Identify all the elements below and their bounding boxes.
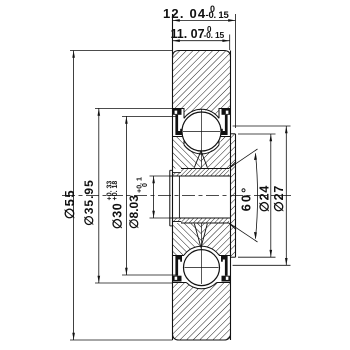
dimension d8.03 line: [152, 176, 155, 218]
extension line 12.04 right: [235, 14, 237, 128]
hub boss right face: [235, 134, 237, 257]
angle 60 arc: [256, 154, 258, 239]
bore top edge: [170, 175, 231, 177]
extension line d35.95 bottom: [95, 282, 173, 284]
svg-text:+0. 18: +0. 18: [112, 181, 119, 201]
hub boss hatch: [231, 134, 236, 257]
outer ring top outline: [173, 51, 231, 58]
inner ring bottom hatch left: [172, 223, 202, 256]
svg-text:12. 04: 12. 04: [163, 6, 206, 21]
ball top: [182, 112, 221, 151]
hub boss bottom face: [231, 256, 236, 258]
body left face: [172, 14, 174, 340]
seal bottom right: [221, 256, 230, 282]
cone apex lines bottom: [194, 224, 207, 248]
taper band top edge: [181, 168, 229, 170]
extension line d30 bottom: [122, 274, 178, 276]
dimension 12.04 line: [173, 19, 236, 22]
taper band top step edge: [173, 172, 181, 174]
svg-text:-0. 15: -0. 15: [206, 10, 230, 21]
inner ring shoulder top: [173, 137, 231, 145]
outer ring top section hatch: [172, 50, 231, 119]
left boss face: [169, 170, 171, 226]
dimension d35.95 line: [98, 108, 101, 283]
dimension d55 line: [72, 51, 75, 341]
cone apex lines top: [194, 151, 207, 168]
inner ring top hatch left: [172, 136, 202, 169]
dimension 11.07 text: [171, 25, 225, 41]
dimension 11.07 line: [173, 39, 230, 42]
extension line d24 bottom: [238, 256, 276, 258]
svg-text:60°: 60°: [239, 186, 254, 212]
ball bottom: [184, 250, 220, 286]
seal top right: [221, 109, 230, 135]
taper band hatch top: [173, 169, 229, 177]
angle 60 arrows: [254, 153, 257, 160]
svg-text:0: 0: [142, 183, 149, 187]
svg-text:∅24: ∅24: [257, 185, 271, 212]
raceway clearance bottom (white): [180, 246, 223, 289]
extension line OD bottom: [70, 339, 173, 341]
extension line 11.07 right: [229, 35, 231, 51]
outer raceway arc top: [184, 109, 219, 118]
taper band bottom step edge: [173, 221, 181, 223]
inner ring bottom hatch right: [201, 223, 231, 256]
inner raceway arc bottom: [184, 246, 219, 255]
taper band hatch bottom: [173, 218, 229, 223]
outer ring right face: [230, 51, 232, 341]
seal top left: [173, 109, 182, 135]
dimension d24 line: [270, 134, 273, 257]
extension line d27 bottom: [233, 264, 291, 266]
outer ring bottom outline: [173, 334, 231, 341]
inner ring shoulder bottom: [173, 255, 231, 257]
left boss bottom edge: [170, 225, 173, 227]
ball bottom center cross: [185, 267, 219, 269]
svg-text:∅8.03: ∅8.03: [127, 195, 141, 229]
raceway clearance top (white): [180, 110, 223, 153]
svg-text:-0. 15: -0. 15: [204, 30, 225, 40]
extension line d24 top: [238, 133, 276, 135]
main axis center line: [62, 195, 293, 197]
extension line d30 top: [122, 115, 178, 117]
bore step circle edge: [178, 176, 180, 218]
extension line d8.03 top: [150, 175, 170, 177]
extension line d8.03 bottom: [150, 217, 170, 219]
taper band bottom edge: [181, 222, 229, 224]
bore bottom edge: [170, 217, 231, 219]
left boss top edge: [170, 169, 173, 171]
outer raceway arc bottom: [186, 283, 216, 289]
inner ring top hatch right: [201, 136, 231, 169]
dimension d30 line: [125, 116, 128, 275]
inner raceway arc top: [184, 145, 219, 154]
svg-text:∅35.95: ∅35.95: [82, 179, 96, 225]
hub boss top face: [231, 133, 236, 135]
cone mouth chamfer top: [229, 162, 236, 169]
svg-text:∅30: ∅30: [111, 203, 125, 229]
extension line d27 top: [233, 125, 291, 127]
angle 60 construction line top: [229, 149, 258, 168]
svg-text:∅55: ∅55: [62, 189, 77, 219]
svg-text:11. 07: 11. 07: [171, 27, 205, 41]
seal bottom left: [173, 256, 182, 282]
dimension d30 text: [107, 181, 125, 230]
extension line OD top: [70, 50, 173, 52]
cone mouth chamfer bottom: [229, 223, 236, 230]
dimension d8.03 text: [127, 177, 149, 229]
svg-text:∅27: ∅27: [272, 185, 286, 212]
angle 60 construction line bottom: [230, 223, 258, 242]
dimension d27 line: [285, 126, 288, 265]
ball top center cross: [183, 131, 220, 133]
dimension 12.04 text: [163, 4, 230, 21]
extension line d35.95 top: [95, 107, 173, 109]
outer ring bottom section hatch: [172, 282, 231, 341]
